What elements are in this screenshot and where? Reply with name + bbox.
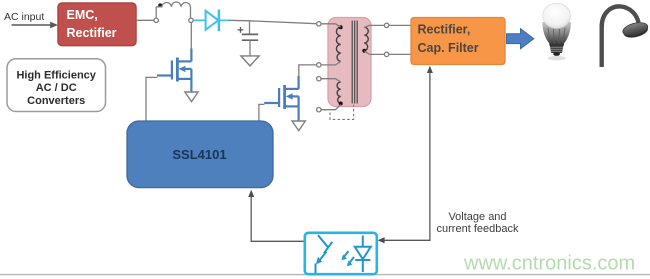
wire aux top terminal — [321, 79, 341, 82]
svg-text:EMC,: EMC, — [67, 8, 98, 22]
wire EMC output to node — [136, 19, 154, 21]
svg-text:SSL4101: SSL4101 — [172, 147, 226, 162]
ground under C1 — [241, 56, 259, 66]
wire node down to Q1 drain — [190, 23, 192, 51]
junction dot aux bottom — [339, 102, 343, 106]
wire feedback from rectifier down — [378, 66, 433, 244]
LED bulb — [542, 3, 571, 60]
wire secondary to rectifier top — [389, 24, 411, 26]
inductor L1 — [156, 2, 190, 7]
wire primary top terminal — [321, 24, 341, 27]
optocoupler U2 — [305, 233, 377, 274]
svg-text:Rectifier: Rectifier — [67, 26, 117, 40]
ground under Q2 — [292, 121, 305, 131]
svg-text:www.cntronics.com: www.cntronics.com — [463, 253, 635, 275]
capacitor C1 — [238, 21, 259, 56]
node primary top — [317, 22, 321, 26]
wire Q2 drain to transformer primary — [299, 65, 317, 77]
wire optocoupler to SSL4101 feedback — [248, 190, 304, 242]
transformer T1 body — [328, 18, 371, 107]
arrow output blue — [507, 29, 534, 49]
svg-text:current feedback: current feedback — [437, 223, 519, 235]
node aux top — [317, 77, 321, 81]
transformer secondary winding — [364, 27, 368, 51]
junction dot primary top — [339, 25, 343, 29]
svg-text:Cap. Filter: Cap. Filter — [418, 41, 479, 55]
svg-text:Voltage and: Voltage and — [448, 211, 506, 223]
svg-text:Rectifier,: Rectifier, — [418, 23, 471, 37]
node aux bottom — [317, 108, 321, 112]
wire AC input arrow — [12, 22, 59, 29]
wire rail diode to transformer — [229, 20, 316, 23]
block Rectifier Cap Filter — [411, 18, 505, 65]
wire primary bottom terminal — [321, 62, 341, 65]
diode D1 — [193, 10, 229, 31]
junction dot inductor left — [158, 3, 162, 7]
block EMC Rectifier — [58, 3, 136, 46]
svg-text:AC / DC: AC / DC — [36, 82, 77, 94]
mosfet Q1 — [157, 49, 192, 92]
wire secondary bottom terminal — [364, 51, 384, 55]
wire secondary top terminal — [364, 25, 384, 27]
wire dashed core link — [330, 105, 354, 120]
node primary bottom — [317, 63, 321, 67]
wire aux bottom terminal — [321, 105, 341, 110]
wire Q1 gate to SSL4101 — [146, 77, 157, 120]
node secondary top — [384, 23, 388, 27]
junction dot secondary bottom — [362, 49, 366, 53]
block SSL4101 U1 — [127, 121, 273, 188]
transformer primary winding — [336, 27, 340, 61]
transformer T1 core — [352, 21, 357, 104]
wire Q2 gate to SSL4101 — [259, 104, 265, 120]
transformer aux winding — [337, 82, 341, 104]
node input rail left — [154, 18, 158, 22]
svg-text:AC input: AC input — [4, 11, 44, 23]
wire node up to inductor — [155, 7, 157, 18]
wire secondary to rectifier bottom — [389, 53, 411, 55]
label voltage and current feedback — [437, 211, 519, 235]
label High Efficiency AC/DC Converters — [7, 59, 106, 112]
mosfet Q2 — [264, 76, 299, 121]
wire inductor down to node — [190, 7, 192, 18]
svg-text:High Efficiency: High Efficiency — [16, 70, 96, 82]
svg-text:Converters: Converters — [27, 95, 85, 107]
node secondary bottom — [384, 52, 388, 56]
node boost switch — [189, 18, 193, 22]
desk lamp — [600, 6, 650, 67]
ground under Q1 — [185, 92, 198, 102]
